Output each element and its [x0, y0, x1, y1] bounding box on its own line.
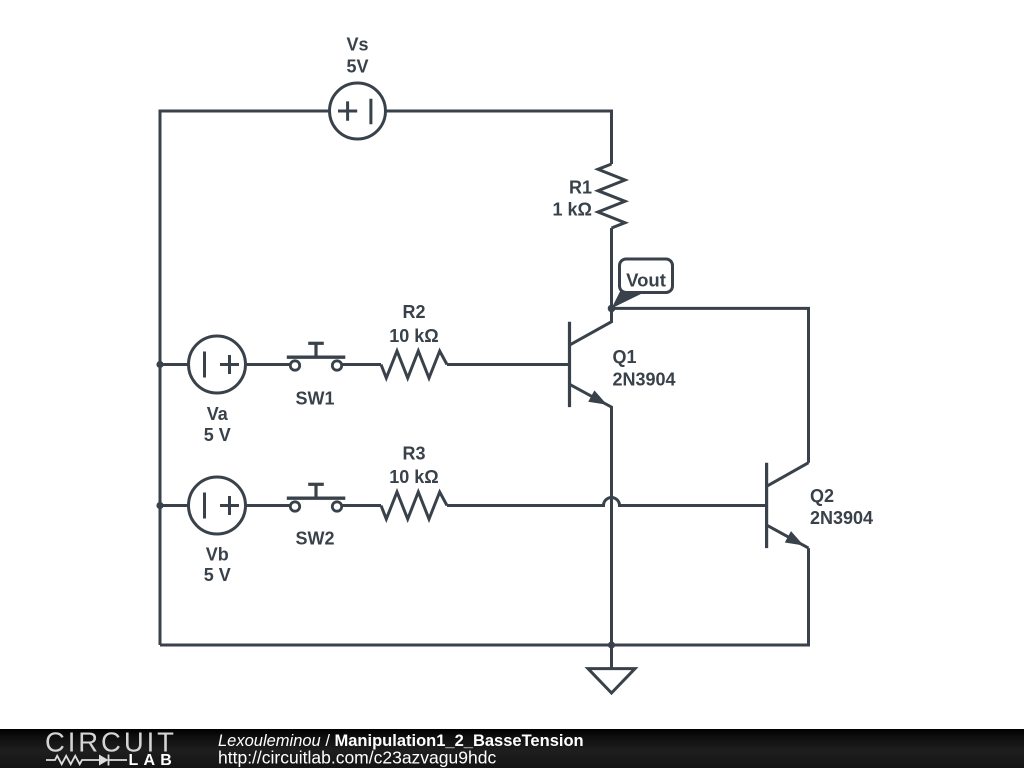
svg-text:SW2: SW2 — [295, 529, 334, 549]
svg-text:LAB: LAB — [129, 752, 177, 768]
svg-text:http://circuitlab.com/c23azvag: http://circuitlab.com/c23azvagu9hdc — [218, 748, 496, 768]
svg-text:Vout: Vout — [626, 270, 666, 291]
svg-text:Q1: Q1 — [613, 347, 637, 367]
svg-text:Va: Va — [207, 404, 229, 424]
svg-text:R3: R3 — [402, 444, 425, 464]
svg-text:5 V: 5 V — [204, 565, 231, 585]
svg-text:5V: 5V — [346, 57, 368, 77]
svg-text:10 kΩ: 10 kΩ — [389, 467, 438, 487]
svg-text:2N3904: 2N3904 — [810, 508, 873, 528]
svg-text:1 kΩ: 1 kΩ — [553, 200, 592, 220]
svg-text:Vb: Vb — [206, 545, 229, 565]
svg-text:R2: R2 — [402, 302, 425, 322]
svg-text:5 V: 5 V — [204, 425, 231, 445]
svg-text:10 kΩ: 10 kΩ — [389, 326, 438, 346]
svg-text:SW1: SW1 — [295, 389, 334, 409]
svg-text:2N3904: 2N3904 — [613, 370, 676, 390]
svg-text:Q2: Q2 — [810, 486, 834, 506]
svg-text:R1: R1 — [569, 178, 592, 198]
svg-text:Vs: Vs — [346, 35, 368, 55]
